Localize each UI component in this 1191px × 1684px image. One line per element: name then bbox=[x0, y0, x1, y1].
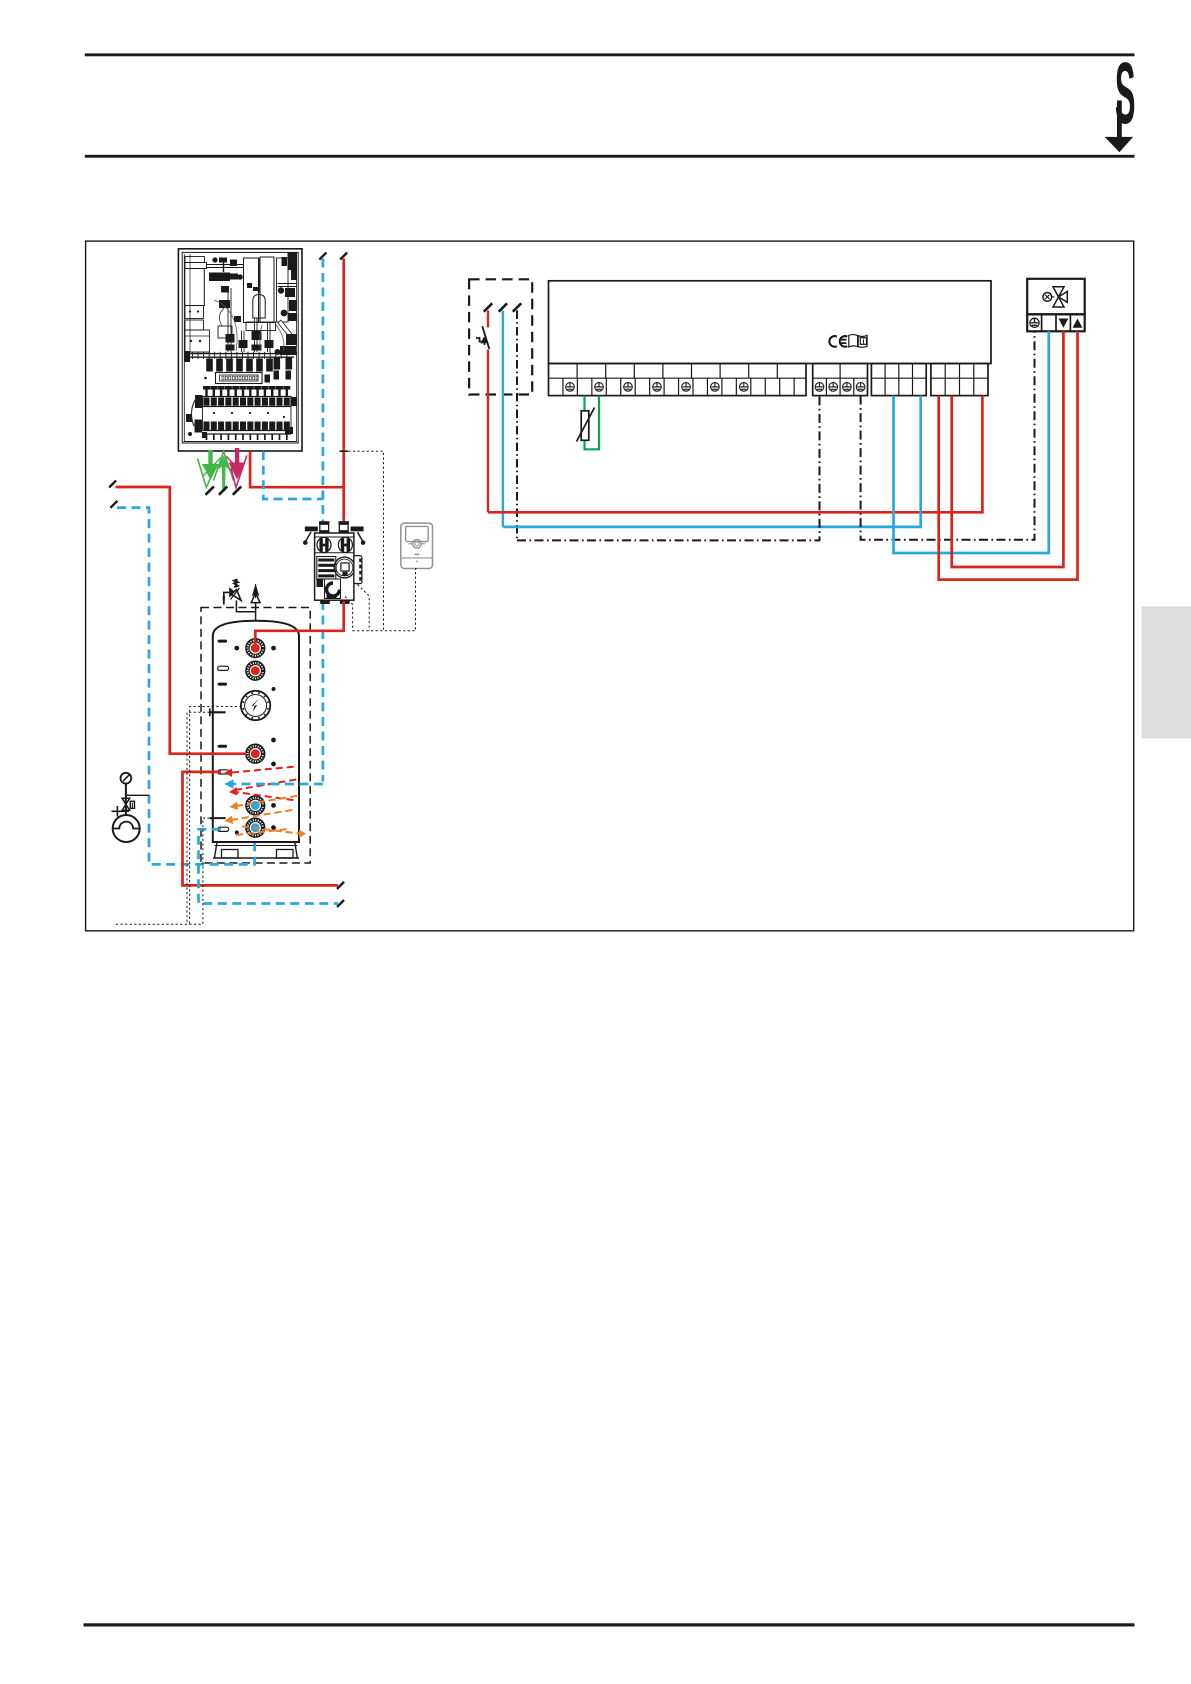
svg-text:i: i bbox=[863, 338, 865, 346]
